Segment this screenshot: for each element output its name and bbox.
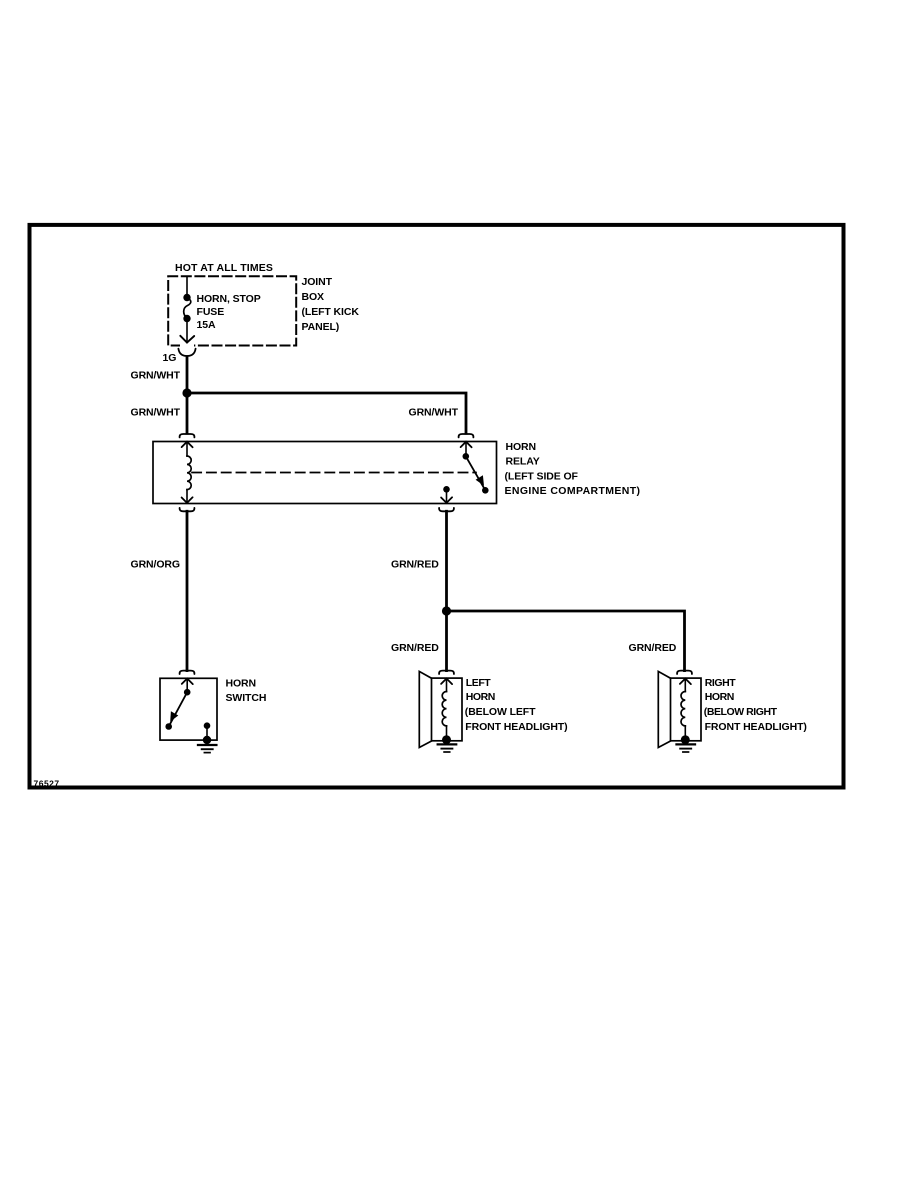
horn switch box <box>160 678 217 740</box>
connector cup (relay bottom-left pin) <box>180 508 195 511</box>
svg-text:PANEL): PANEL) <box>302 321 340 333</box>
horn relay box <box>153 442 497 504</box>
ground (horn switch) <box>198 744 216 746</box>
relay switch contact (common) <box>463 453 470 460</box>
left horn flare <box>419 671 431 747</box>
relay switch blade <box>466 456 486 490</box>
svg-text:FRONT HEADLIGHT): FRONT HEADLIGHT) <box>465 721 567 733</box>
svg-text:1G: 1G <box>163 352 177 364</box>
wire (coil to relay bottom-left pin) <box>186 490 188 503</box>
wire GRN/WHT (1G to junction) <box>186 357 189 392</box>
svg-text:HORN: HORN <box>705 691 734 703</box>
junction (GRN/WHT splice) <box>182 388 191 397</box>
wire (fuse to joint box output) <box>186 319 188 343</box>
pin arrow (relay coil top, male) <box>182 442 193 448</box>
svg-text:BOX: BOX <box>302 291 325 303</box>
relay switch contact (NO) <box>482 487 489 494</box>
pin arrow (right horn input, male) <box>680 679 691 685</box>
wire GRN/RED (relay to junction) <box>445 511 448 670</box>
svg-text:(BELOW LEFT: (BELOW LEFT <box>465 706 536 718</box>
wire (right horn coil to ground pin) <box>684 726 686 740</box>
junction (GRN/RED splice) <box>442 606 451 615</box>
svg-text:(BELOW RIGHT: (BELOW RIGHT <box>704 706 778 718</box>
svg-text:76527: 76527 <box>34 778 60 788</box>
svg-text:GRN/ORG: GRN/ORG <box>131 558 180 570</box>
relay coil L1 <box>187 456 191 490</box>
wire GRN/WHT (junction to relay right pin, horizontal + vertical) <box>187 393 466 433</box>
svg-text:GRN/RED: GRN/RED <box>391 642 439 654</box>
relay switch blade arrowhead <box>476 475 484 485</box>
svg-text:(LEFT KICK: (LEFT KICK <box>302 306 360 318</box>
svg-text:RIGHT: RIGHT <box>705 677 736 689</box>
svg-text:FUSE: FUSE <box>197 306 225 318</box>
left horn ground pin <box>442 735 451 744</box>
wire GRN/RED (junction to right horn, horizontal + vertical) <box>447 611 685 671</box>
left horn box <box>432 678 463 741</box>
relay actuation dashed link <box>192 472 476 474</box>
svg-text:HORN: HORN <box>226 678 257 690</box>
svg-text:HORN, STOP: HORN, STOP <box>197 293 261 305</box>
svg-text:GRN/WHT: GRN/WHT <box>409 407 459 419</box>
wire GRN/ORG (relay to horn switch) <box>186 511 189 670</box>
svg-text:ENGINE COMPARTMENT): ENGINE COMPARTMENT) <box>505 485 641 497</box>
horn switch contact (bottom) <box>165 723 172 730</box>
svg-text:GRN/WHT: GRN/WHT <box>131 407 181 419</box>
horn switch blade with arrowhead <box>169 692 188 726</box>
pin arrow (relay output bottom, male) <box>441 497 452 503</box>
right horn flare <box>658 671 670 747</box>
pin arrow (relay coil bottom, male) <box>182 497 193 503</box>
connector cup (horn switch pin) <box>180 671 195 674</box>
svg-text:JOINT: JOINT <box>302 276 333 288</box>
horn switch ground pin <box>204 722 211 729</box>
svg-text:HORN: HORN <box>466 691 495 703</box>
svg-text:HORN: HORN <box>506 441 537 453</box>
connector cup (relay coil top pin) <box>180 434 195 437</box>
wire (joint box top to fuse) <box>186 277 188 298</box>
svg-text:SWITCH: SWITCH <box>226 692 267 704</box>
ground (left horn) <box>438 743 457 745</box>
pin arrow (horn switch input, male) <box>182 679 193 685</box>
connector cup (relay bottom-right pin) <box>439 508 454 511</box>
pin arrow (relay switch top, male) <box>461 442 472 448</box>
ground (right horn) <box>677 743 696 745</box>
connector arrow (joint box output pin) <box>180 336 194 343</box>
connector 1G (female cup) <box>178 349 195 356</box>
joint box (dashed) <box>168 276 296 345</box>
svg-text:FRONT HEADLIGHT): FRONT HEADLIGHT) <box>705 721 807 733</box>
relay output contact <box>443 486 450 493</box>
horn switch contact (top) <box>184 689 191 696</box>
joint box border gap at output pin <box>180 343 194 348</box>
left horn coil <box>442 692 446 726</box>
connector cup (left horn pin) <box>439 671 454 674</box>
fuse HORN, STOP FUSE 15A <box>183 294 190 301</box>
svg-text:RELAY: RELAY <box>506 456 540 468</box>
right horn ground pin <box>681 735 690 744</box>
svg-text:15A: 15A <box>197 319 216 331</box>
connector cup (right horn pin) <box>677 671 692 674</box>
right horn box <box>671 678 702 741</box>
wire GRN/WHT (junction to relay left pin) <box>186 393 189 433</box>
pin arrow (left horn input, male) <box>441 679 452 685</box>
connector cup (relay switch top pin) <box>459 434 474 437</box>
svg-text:LEFT: LEFT <box>466 677 491 689</box>
svg-text:GRN/RED: GRN/RED <box>391 558 439 570</box>
wire (left horn coil to ground pin) <box>446 726 448 740</box>
svg-text:(LEFT SIDE OF: (LEFT SIDE OF <box>505 470 579 482</box>
svg-text:GRN/WHT: GRN/WHT <box>131 369 181 381</box>
svg-text:GRN/RED: GRN/RED <box>629 642 677 654</box>
svg-text:HOT AT ALL TIMES: HOT AT ALL TIMES <box>175 262 273 274</box>
right horn coil <box>681 692 685 726</box>
